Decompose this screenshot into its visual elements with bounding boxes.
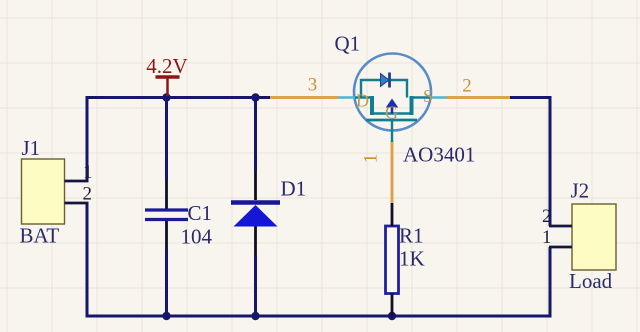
svg-text:D1: D1 bbox=[281, 177, 307, 201]
wire C1 bottom bbox=[165, 249, 168, 317]
wire J1 pin2 down left side bbox=[86, 203, 89, 317]
wire J2 pin1 down to bottom rail bbox=[549, 247, 552, 317]
Q1 source pin stub bbox=[430, 96, 447, 99]
Q1 substrate arrow bbox=[386, 99, 398, 108]
Q1 right contact plate bbox=[410, 96, 414, 115]
D1 pin top bbox=[254, 171, 257, 200]
svg-text:Q1: Q1 bbox=[335, 32, 361, 56]
wire D1 top bbox=[254, 96, 257, 171]
wire net 1 (orange, Q1 gate to R1) bbox=[391, 141, 394, 203]
svg-text:1: 1 bbox=[542, 227, 552, 248]
Q1 gate lead bbox=[391, 120, 393, 142]
resistor R1 body bbox=[386, 226, 399, 294]
wire top rail (4.2V net) bbox=[86, 96, 271, 99]
svg-text:J1: J1 bbox=[22, 136, 41, 160]
svg-text:1: 1 bbox=[83, 162, 93, 183]
wire C1 top bbox=[165, 96, 168, 181]
wire right top corner down to J2 pin2 bbox=[510, 98, 550, 227]
mosfet Q1 body circle bbox=[354, 54, 431, 131]
J2 pin 1 bbox=[549, 246, 572, 249]
junction top rail / D1 bbox=[251, 93, 259, 101]
svg-text:Load: Load bbox=[569, 269, 613, 293]
J2 pin 2 bbox=[549, 225, 572, 228]
svg-text:D: D bbox=[356, 91, 369, 111]
svg-text:1K: 1K bbox=[399, 247, 425, 271]
svg-text:3: 3 bbox=[308, 75, 318, 96]
connector J2 body bbox=[572, 204, 616, 270]
C1 pin bottom bbox=[165, 221, 168, 249]
wire bottom rail (GND net) bbox=[86, 315, 552, 318]
wire net 2 (orange, Q1 source to right) bbox=[446, 96, 510, 99]
svg-text:BAT: BAT bbox=[20, 224, 60, 248]
svg-text:104: 104 bbox=[181, 225, 213, 249]
svg-text:2: 2 bbox=[462, 76, 472, 97]
Q1 body diode loop bbox=[361, 80, 380, 98]
diode D1 triangle bbox=[234, 205, 278, 227]
diode D1 cathode bar bbox=[231, 200, 280, 205]
Q1 body diode triangle bbox=[381, 74, 390, 87]
junction top rail / C1 bbox=[162, 93, 170, 101]
svg-text:S: S bbox=[423, 86, 433, 106]
svg-text:J2: J2 bbox=[571, 179, 590, 203]
svg-text:1: 1 bbox=[361, 154, 382, 164]
wire net 3 (orange, rail to Q1 drain) bbox=[270, 96, 338, 99]
svg-text:AO3401: AO3401 bbox=[403, 143, 475, 167]
power port 4.2V bar bbox=[156, 77, 180, 96]
junction bottom rail / D1 bbox=[251, 312, 259, 320]
Q1 source line inside bbox=[412, 96, 432, 98]
J1 pin 2 bbox=[65, 202, 89, 205]
svg-text:4.2V: 4.2V bbox=[146, 54, 187, 78]
capacitor C1 plates bbox=[145, 210, 188, 220]
Q1 gate plate bbox=[366, 119, 417, 122]
svg-text:C1: C1 bbox=[188, 201, 213, 225]
junction bottom rail / R1 bbox=[388, 312, 396, 320]
C1 pin top bbox=[165, 181, 168, 209]
Q1 drain pin stub bbox=[338, 96, 356, 99]
junction bottom rail / C1 bbox=[162, 312, 170, 320]
svg-text:2: 2 bbox=[83, 184, 93, 205]
svg-text:2: 2 bbox=[542, 206, 552, 227]
J1 pin 1 bbox=[65, 180, 89, 183]
Q1 body diode cathode bar bbox=[388, 73, 391, 88]
R1 pin top bbox=[391, 203, 394, 226]
svg-text:G: G bbox=[385, 103, 398, 123]
Q1 channel line bbox=[370, 112, 414, 114]
D1 pin bottom bbox=[254, 227, 257, 256]
connector J1 body bbox=[22, 159, 65, 224]
svg-text:R1: R1 bbox=[399, 224, 424, 248]
Q1 left contact plate bbox=[370, 96, 374, 115]
wire D1 bottom bbox=[254, 255, 257, 317]
wire J1 pin1 to top rail bbox=[86, 98, 89, 182]
R1 pin bottom bbox=[391, 294, 394, 317]
Q1 drain line inside bbox=[355, 96, 372, 98]
